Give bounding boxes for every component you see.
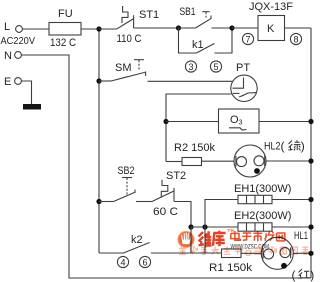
terminal L bbox=[16, 26, 23, 33]
relay contact k2 bbox=[99, 234, 222, 253]
wire L to FU bbox=[22, 28, 49, 30]
watermark trademark tm bbox=[227, 230, 233, 233]
svg-text:6: 6 bbox=[142, 257, 147, 267]
svg-text:K: K bbox=[267, 23, 275, 35]
wire R2 to HL2 bbox=[202, 160, 235, 162]
wire ST1 to SB1 bbox=[134, 27, 179, 29]
wire HL1 to right bus bbox=[293, 252, 311, 254]
switch SM bbox=[99, 60, 146, 81]
node HL2 bus junction bbox=[308, 158, 313, 163]
node EH1 bus junction bbox=[308, 197, 313, 202]
wire to R2 bbox=[166, 161, 182, 163]
pushbutton SB2 bbox=[99, 165, 136, 202]
svg-text:PT: PT bbox=[236, 62, 250, 74]
svg-text:ST2: ST2 bbox=[166, 170, 186, 182]
svg-text:110 C: 110 C bbox=[117, 33, 142, 45]
terminal circle 6 bbox=[139, 256, 150, 267]
svg-text:R2 150k: R2 150k bbox=[174, 142, 215, 154]
node SM junction bbox=[96, 78, 101, 83]
svg-text:60 C: 60 C bbox=[153, 206, 178, 218]
watermark faint bottom row bbox=[179, 247, 309, 256]
node EH2 row left junction bbox=[188, 224, 193, 229]
wire R1 to HL1 bbox=[241, 252, 261, 254]
svg-text:EH2(300W): EH2(300W) bbox=[234, 210, 291, 222]
terminal circle 8 bbox=[290, 33, 301, 44]
node O3 branch junction bbox=[163, 119, 168, 124]
wire to relay coil K bbox=[232, 27, 258, 29]
watermark chars 电子市场网 bbox=[231, 231, 286, 241]
terminal N bbox=[15, 52, 22, 59]
resistor R2 150k bbox=[182, 158, 202, 166]
heater EH1 300W bbox=[234, 183, 291, 204]
svg-text:SB1: SB1 bbox=[180, 6, 196, 18]
svg-text:8: 8 bbox=[293, 34, 298, 44]
node HL1 bus junction bbox=[308, 251, 313, 256]
svg-text:JQX-13F: JQX-13F bbox=[249, 1, 293, 13]
svg-text:k1: k1 bbox=[192, 39, 204, 51]
wire ST2 branch down to R1 row bbox=[190, 227, 192, 253]
svg-text:): ) bbox=[301, 139, 305, 153]
svg-text:7: 7 bbox=[245, 34, 250, 44]
thermostat ST2 60C bbox=[152, 170, 187, 218]
svg-text:(: ( bbox=[292, 268, 296, 282]
wire E to ground bbox=[21, 81, 31, 104]
timer motor PT bbox=[231, 62, 257, 102]
wire O3 to right bus bbox=[259, 121, 311, 123]
relay coil K JQX-13F bbox=[258, 16, 285, 41]
terminal circle 3 bbox=[185, 61, 196, 72]
indicator lamp HL1 red bbox=[261, 230, 314, 282]
node EH1 branch junction bbox=[202, 224, 207, 229]
right bus vertical N return bbox=[310, 28, 312, 278]
svg-text:k2: k2 bbox=[131, 234, 143, 246]
wire EH2 node down to R1 row bbox=[204, 227, 206, 253]
wire FU to bus bbox=[81, 28, 99, 30]
ozone generator O3 bbox=[219, 109, 260, 133]
node O3 bus junction bbox=[308, 119, 313, 124]
svg-text:HL1: HL1 bbox=[294, 230, 308, 242]
wire SM to PT bbox=[148, 80, 234, 82]
terminal circle 7 bbox=[242, 33, 253, 44]
glyph red 红 bbox=[298, 269, 310, 279]
terminal E bbox=[15, 78, 22, 85]
thermostat ST1 110C bbox=[99, 6, 159, 45]
glyph green 绿 bbox=[288, 140, 300, 150]
svg-text:E: E bbox=[4, 76, 11, 88]
svg-text:3: 3 bbox=[188, 62, 193, 72]
node B junction SB1-k1 right bbox=[229, 25, 234, 30]
ground bbox=[23, 104, 41, 110]
wire coil K to right bus bbox=[285, 27, 312, 29]
svg-text:AC220V: AC220V bbox=[1, 35, 36, 47]
wire EH1 branch bbox=[205, 200, 238, 228]
pushbutton SB1 bbox=[179, 6, 233, 28]
heater EH2 300W bbox=[234, 210, 291, 231]
left bus vertical bbox=[98, 29, 100, 253]
node FU-ST1 junction bbox=[96, 26, 101, 31]
svg-text:HL2: HL2 bbox=[264, 141, 281, 153]
node EH2 bus junction bbox=[308, 224, 313, 229]
wire to O3 box bbox=[166, 121, 219, 123]
wire PT lower lead bbox=[166, 94, 232, 162]
terminal circle 4 bbox=[117, 256, 128, 267]
svg-text:(: ( bbox=[281, 139, 285, 153]
watermark logo weiku bbox=[178, 231, 194, 247]
relay contact k1 bbox=[179, 28, 233, 53]
wire SB2 to ST2 bbox=[136, 201, 152, 203]
svg-text:R1 150k: R1 150k bbox=[209, 262, 253, 274]
svg-text:ST1: ST1 bbox=[139, 9, 159, 21]
node A junction SB1-k1 left bbox=[176, 25, 181, 30]
svg-text:WWW.DZSC.COM: WWW.DZSC.COM bbox=[231, 244, 270, 251]
wire N to bottom return bbox=[21, 55, 311, 278]
node SB2 junction bbox=[96, 199, 101, 204]
wire EH2 to right bus bbox=[272, 226, 311, 228]
svg-text:L: L bbox=[4, 21, 10, 33]
svg-text:FU: FU bbox=[58, 8, 73, 20]
svg-text:5: 5 bbox=[213, 62, 218, 72]
watermark char 库 bbox=[213, 231, 226, 247]
svg-text:SB2: SB2 bbox=[118, 165, 135, 177]
resistor R1 150k bbox=[222, 249, 242, 258]
svg-text:4: 4 bbox=[120, 257, 125, 267]
svg-text:): ) bbox=[310, 268, 314, 282]
wire EH1 to right bus bbox=[272, 199, 311, 201]
wire HL2 to right bus bbox=[266, 160, 311, 162]
fuse FU 132C bbox=[49, 23, 81, 36]
watermark char 维 bbox=[199, 231, 212, 246]
svg-text:SM: SM bbox=[115, 62, 132, 74]
wire EH2 row bbox=[191, 226, 238, 228]
indicator lamp HL2 green bbox=[234, 139, 305, 177]
wire ST2 to EH row bbox=[174, 202, 191, 228]
svg-text:132 C: 132 C bbox=[50, 37, 76, 49]
svg-text:EH1(300W): EH1(300W) bbox=[234, 183, 291, 195]
svg-text:3: 3 bbox=[239, 120, 243, 127]
svg-text:N: N bbox=[4, 50, 12, 62]
terminal circle 5 bbox=[210, 61, 221, 72]
